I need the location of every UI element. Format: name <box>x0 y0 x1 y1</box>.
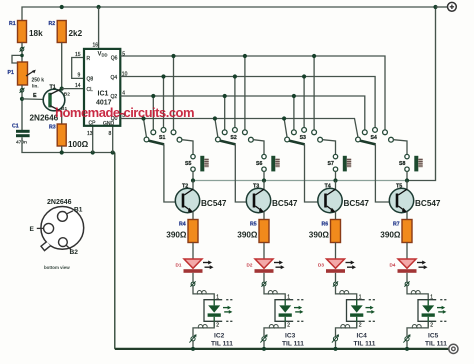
wire CP pin13 to ground <box>92 126 94 153</box>
svg-text:2k2: 2k2 <box>69 29 83 38</box>
wire D1 cathode <box>192 273 194 282</box>
node emitter junction <box>20 97 24 101</box>
svg-text:S3: S3 <box>300 135 306 141</box>
wire wiper loop to P1 top <box>12 55 22 63</box>
node connector tick <box>333 281 338 286</box>
wire to 0V bus <box>192 341 194 349</box>
switch S6 <box>256 154 266 171</box>
node wiper tick 2 <box>20 88 25 93</box>
wire S1 link to S5 <box>182 140 193 155</box>
wire S6 to collector node <box>263 171 265 180</box>
svg-text:390Ω: 390Ω <box>309 231 330 240</box>
socket icon S5 <box>200 156 208 172</box>
wire D4 cathode <box>406 273 408 282</box>
svg-text:Q6: Q6 <box>111 55 118 61</box>
svg-text:homemade-circuits.com: homemade-circuits.com <box>55 105 194 120</box>
socket icon S7 <box>343 156 351 172</box>
pin numbers IC1 <box>75 43 128 138</box>
svg-text:390Ω: 390Ω <box>380 231 401 240</box>
wire S1 throw3 to bus Q6 <box>171 54 175 130</box>
svg-text:bottom view: bottom view <box>44 265 70 270</box>
svg-text:R: R <box>87 56 91 62</box>
svg-text:R6: R6 <box>322 222 329 228</box>
svg-text:2: 2 <box>430 323 433 329</box>
optocoupler IC4 TIL111 <box>347 300 376 348</box>
wire R6 to D3 <box>335 243 337 260</box>
resistor R3 <box>49 124 89 149</box>
wire S1 throw2 to bus Q4 <box>161 74 165 127</box>
svg-text:VDD: VDD <box>98 52 108 58</box>
wire S3 throw2 to bus Q4 <box>302 74 306 127</box>
LED D3 <box>318 259 356 273</box>
node collector junction <box>405 178 409 182</box>
svg-text:16: 16 <box>93 43 99 49</box>
LED D1 <box>176 259 214 273</box>
transistor T5 BC547 <box>389 183 441 213</box>
wire S3 throw1 to bus Q2 <box>292 94 296 130</box>
diagram 2N2646 pinout bottom view <box>30 199 84 270</box>
svg-text:TIL 111: TIL 111 <box>282 341 304 348</box>
node connector arrow <box>260 334 267 342</box>
wire R2 to B2 node <box>61 43 63 89</box>
wire reset loop pin15 to pin9 <box>72 58 84 79</box>
svg-text:18k: 18k <box>29 29 43 38</box>
node connector tick <box>404 281 409 286</box>
svg-text:S2: S2 <box>230 135 236 141</box>
node CP ground junction <box>91 150 95 154</box>
wire bus Q6 <box>120 56 385 130</box>
svg-text:R5: R5 <box>250 222 257 228</box>
wire S2 throw1 to bus Q2 <box>223 94 227 130</box>
resistor R6 390ohm <box>309 220 341 243</box>
switch S5 <box>185 154 195 171</box>
wire R4 to D1 <box>192 243 194 260</box>
svg-text:R2: R2 <box>49 21 56 27</box>
wire emitter lead <box>22 93 49 102</box>
wire S3 lever to T4 base <box>305 144 325 202</box>
svg-text:IC2: IC2 <box>214 333 225 340</box>
transistor T1 2N2646 <box>30 85 71 123</box>
svg-text:2: 2 <box>359 323 362 329</box>
wire coil link to optocoupler pin1 <box>193 286 214 300</box>
svg-text:E: E <box>30 226 35 233</box>
svg-text:B1: B1 <box>74 207 83 214</box>
svg-text:S5: S5 <box>185 161 191 167</box>
node +V rail junctions <box>60 5 438 9</box>
wire C1 to ground line <box>22 137 115 152</box>
node collector junction <box>191 178 195 182</box>
LED D2 <box>247 259 285 273</box>
svg-text:2: 2 <box>216 323 219 329</box>
node collector junction <box>333 178 337 182</box>
node collector junction <box>262 178 266 182</box>
node connector arrow <box>403 334 410 342</box>
wire emitter to R7 <box>406 212 408 220</box>
svg-text:390Ω: 390Ω <box>237 231 258 240</box>
node 0V junction <box>262 347 266 351</box>
wire S2 lever to T3 base <box>235 144 253 202</box>
svg-text:D3: D3 <box>318 263 324 268</box>
wire to 0V bus <box>406 341 408 349</box>
wire R1 to P1 <box>21 43 23 63</box>
svg-text:2: 2 <box>287 323 290 329</box>
svg-text:T1: T1 <box>50 85 56 91</box>
svg-text:390Ω: 390Ω <box>166 231 187 240</box>
svg-text:14: 14 <box>75 83 81 89</box>
resistor R4 390ohm <box>166 220 198 243</box>
wire R3 to ground line <box>61 146 63 153</box>
optocoupler IC2 TIL111 <box>204 300 233 348</box>
svg-text:T3: T3 <box>253 183 259 189</box>
svg-text:IC4: IC4 <box>357 333 368 340</box>
svg-text:TIL 111: TIL 111 <box>211 341 233 348</box>
wire collector <box>406 181 408 190</box>
svg-text:E: E <box>33 93 37 99</box>
svg-text:IC3: IC3 <box>285 333 296 340</box>
wire D3 cathode <box>335 273 337 282</box>
wire clock pin14 from B2 node <box>62 88 84 90</box>
svg-text:CP: CP <box>89 120 97 126</box>
switch S7 <box>328 154 338 171</box>
transistor T3 BC547 <box>246 183 298 213</box>
resistor R2 <box>49 21 83 43</box>
wire emitter to R5 <box>263 212 265 220</box>
wire B1 to R3 <box>61 112 63 125</box>
svg-text:S4: S4 <box>371 135 377 141</box>
svg-text:B2: B2 <box>70 249 79 256</box>
svg-text:T5: T5 <box>396 183 402 189</box>
svg-text:13: 13 <box>87 131 93 137</box>
socket icon S8 <box>414 156 422 172</box>
wire 0V bottom bus <box>115 348 449 350</box>
svg-text:T4: T4 <box>325 183 331 189</box>
svg-text:P1: P1 <box>8 70 14 76</box>
wire collector <box>192 181 194 190</box>
node wiper tick <box>20 47 25 52</box>
switch S2 selector <box>216 127 254 144</box>
wire collector rail <box>193 180 407 182</box>
wire S8 to collector node <box>406 171 408 180</box>
optocoupler IC5 TIL111 <box>418 300 447 348</box>
wire VDD pin16 <box>98 7 100 49</box>
svg-text:BC547: BC547 <box>201 199 227 208</box>
node 0V junction <box>405 347 409 351</box>
transistor T4 BC547 <box>318 183 370 213</box>
svg-text:100Ω: 100Ω <box>68 140 89 149</box>
svg-text:R1: R1 <box>9 21 16 27</box>
resistor R5 390ohm <box>237 220 269 243</box>
svg-text:S1: S1 <box>159 135 165 141</box>
wire S3 pole to bus Q0 <box>282 116 287 137</box>
transistor T2 BC547 <box>175 183 227 213</box>
wire optocoupler pin2 return <box>264 321 285 336</box>
wire coil link to optocoupler pin1 <box>336 286 357 300</box>
node 0V junction <box>334 347 338 351</box>
switch S4 selector <box>356 127 394 144</box>
wire collector <box>263 181 265 190</box>
node GND pin ground junction <box>111 150 115 154</box>
svg-text:lin.: lin. <box>32 84 39 89</box>
wire S2 throw3 to bus Q6 <box>243 54 247 130</box>
svg-text:IC1: IC1 <box>98 91 109 98</box>
wire emitter to R4 <box>192 212 194 220</box>
wire S1 throw1 to bus Q2 <box>151 94 155 130</box>
wire S1 pole to bus Q0 <box>141 116 146 137</box>
svg-text:BC547: BC547 <box>344 199 370 208</box>
wire collector <box>335 181 337 190</box>
svg-text:BC547: BC547 <box>415 199 441 208</box>
wire S4 lever to T5 base <box>375 144 396 202</box>
wire S3 link to S7 <box>323 140 336 155</box>
svg-text:D1: D1 <box>176 263 182 268</box>
wire to 0V bus <box>263 341 265 349</box>
wire coil link to optocoupler pin1 <box>407 286 428 300</box>
wire optocoupler pin2 return <box>407 321 428 336</box>
resistor R7 390ohm <box>380 220 412 243</box>
node connector tick <box>190 281 195 286</box>
optocoupler IC3 TIL111 <box>275 300 304 348</box>
wire S2 link to S6 <box>253 140 264 155</box>
svg-text:Q4: Q4 <box>111 75 118 81</box>
wire R5 to D2 <box>263 243 265 260</box>
wire ground down to bottom bus <box>114 153 116 349</box>
wire S3 throw3 to bus Q6 <box>312 54 316 130</box>
svg-text:R4: R4 <box>179 222 186 228</box>
wire optocoupler pin2 return <box>336 321 357 336</box>
svg-text:C1: C1 <box>12 124 19 130</box>
svg-text:GND: GND <box>103 121 115 127</box>
wire D2 cathode <box>263 273 265 282</box>
svg-text:R7: R7 <box>393 222 400 228</box>
node connector tick <box>261 281 266 286</box>
wire S5 to collector node <box>192 171 194 180</box>
LED D4 <box>390 259 428 273</box>
svg-text:D4: D4 <box>390 263 396 268</box>
svg-text:2N2646: 2N2646 <box>47 199 72 206</box>
switch S1 selector <box>144 127 182 144</box>
node connector arrow <box>189 334 196 342</box>
capacitor C1 470n <box>12 124 30 146</box>
svg-text:B2: B2 <box>64 92 70 98</box>
svg-text:T2: T2 <box>182 183 188 189</box>
svg-text:S8: S8 <box>399 161 405 167</box>
svg-text:BC547: BC547 <box>272 199 298 208</box>
svg-text:15: 15 <box>75 52 81 58</box>
wire bus Q2 <box>120 96 364 130</box>
wire R7 to D4 <box>406 243 408 260</box>
resistor R1 <box>9 21 43 43</box>
svg-text:D2: D2 <box>247 263 253 268</box>
terminal 0V <box>449 344 458 353</box>
switch S8 <box>399 154 409 171</box>
node B2 junction <box>60 87 64 91</box>
socket icon S6 <box>271 156 279 172</box>
wire bus Q4 <box>120 77 375 128</box>
switch S3 selector <box>285 127 323 144</box>
svg-text:S6: S6 <box>256 161 262 167</box>
wire GND pin8 to ground <box>112 126 114 153</box>
potentiometer P1 250k lin <box>8 62 45 89</box>
svg-text:IC5: IC5 <box>428 333 439 340</box>
wire coil link to optocoupler pin1 <box>264 286 285 300</box>
node R3 ground junction <box>60 150 64 154</box>
svg-text:9: 9 <box>78 73 81 79</box>
svg-text:TIL 111: TIL 111 <box>425 341 447 348</box>
svg-text:8: 8 <box>109 131 112 137</box>
node 0V junction <box>191 347 195 351</box>
svg-text:TIL 111: TIL 111 <box>354 341 376 348</box>
wire P1 to emitter node and C1 <box>21 85 23 130</box>
wire bus Q0 <box>120 119 358 138</box>
wire +V top rail <box>22 7 436 43</box>
wire S2 throw2 to bus Q4 <box>233 74 237 127</box>
wire to 0V bus <box>335 341 337 349</box>
svg-text:R3: R3 <box>49 125 56 131</box>
wire S4 link to S8 <box>394 140 408 155</box>
terminal + supply <box>436 2 457 11</box>
svg-text:Q8: Q8 <box>87 77 94 83</box>
op-amp IC1 4017 body <box>84 49 120 127</box>
wire S2 pole to bus Q0 <box>213 116 218 137</box>
wire S1 lever to T2 base <box>164 144 182 202</box>
svg-text:S7: S7 <box>328 161 334 167</box>
wire emitter to R6 <box>335 212 337 220</box>
svg-text:CL: CL <box>87 87 94 93</box>
wire optocoupler pin2 return <box>193 321 214 336</box>
node connector arrow <box>332 334 339 342</box>
wire +V right rail down to collector rail <box>407 7 436 181</box>
wire S7 to collector node <box>335 171 337 180</box>
